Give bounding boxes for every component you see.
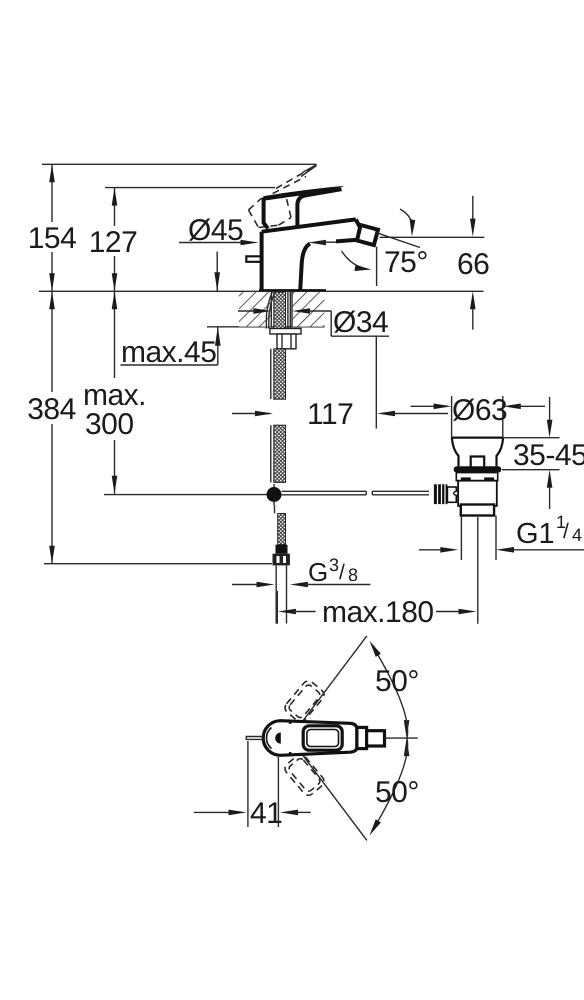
dimension 66 xyxy=(457,196,489,330)
G1 1/4 dimension arrows xyxy=(419,549,443,551)
label G1 1/4 xyxy=(419,512,584,553)
svg-text:154: 154 xyxy=(28,222,77,255)
deck top line xyxy=(39,290,484,292)
dimension 384 xyxy=(27,291,76,563)
waste flange (bell) xyxy=(452,438,503,467)
pop-up waste assembly xyxy=(434,438,503,624)
dimension 154 xyxy=(28,164,77,291)
dimension max.300 xyxy=(83,291,146,493)
svg-text:75°: 75° xyxy=(384,246,428,279)
arc arrows at centerline xyxy=(404,720,410,738)
label G 3/8 xyxy=(232,555,370,587)
dimension 117 xyxy=(232,398,448,431)
upper body band xyxy=(456,473,497,481)
waste main body xyxy=(458,481,497,506)
faucet base seat line xyxy=(259,289,326,291)
svg-text:66: 66 xyxy=(457,248,489,281)
waste nut band xyxy=(461,505,494,516)
lower 50° arc xyxy=(370,819,381,835)
mounting nut xyxy=(277,334,296,349)
label Ø34 with leader xyxy=(238,306,389,429)
svg-text:Ø63: Ø63 xyxy=(452,394,507,427)
svg-text:G1: G1 xyxy=(516,518,555,550)
faucet side view: lever (solid) xyxy=(263,186,345,229)
faucet side view: dashed raised lever xyxy=(249,165,317,228)
svg-text:/: / xyxy=(339,561,345,584)
svg-text:max.45: max.45 xyxy=(121,336,216,369)
braided hose middle xyxy=(274,425,286,482)
reference line top (lever raised height) xyxy=(42,163,317,165)
dashed handle rotated down 50° xyxy=(283,752,327,798)
deck bottom line xyxy=(207,326,325,328)
50° diagonal line upper xyxy=(302,636,367,722)
svg-text:41: 41 xyxy=(250,797,282,830)
braided hose lower xyxy=(278,514,286,545)
svg-text:300: 300 xyxy=(85,408,134,441)
shank + hoses below deck xyxy=(266,292,429,624)
svg-text:max.180: max.180 xyxy=(322,596,434,629)
hatched deck right block xyxy=(292,292,324,327)
hose curving left under deck xyxy=(266,292,272,329)
svg-text:50°: 50° xyxy=(375,665,419,698)
top view: body capsule xyxy=(246,721,384,756)
dimension max.45 xyxy=(121,252,221,370)
aerator (rotated square) xyxy=(357,225,378,245)
pop-up rod ball joint xyxy=(273,484,275,505)
reference line hose end (384 bottom) xyxy=(44,563,272,565)
braided hose in deck hole xyxy=(274,292,286,329)
svg-text:Ø34: Ø34 xyxy=(333,306,388,339)
G3/8 dimension arrows xyxy=(232,584,259,586)
drain centerline xyxy=(477,517,479,624)
pipe below nut xyxy=(275,565,277,623)
dimension 127 xyxy=(89,188,138,292)
plug lifter pin xyxy=(471,457,485,468)
svg-text:117: 117 xyxy=(307,398,353,431)
top view: aerator xyxy=(367,731,385,746)
svg-text:50°: 50° xyxy=(375,776,419,809)
dashed handle rotated up 50° xyxy=(283,679,327,725)
svg-text:8: 8 xyxy=(348,565,358,585)
svg-text:4: 4 xyxy=(572,525,582,545)
rod knurled knob xyxy=(434,484,448,504)
seal band (black) xyxy=(454,466,502,472)
75 degree construction: spout axis line xyxy=(376,233,420,248)
75 degree vertical reference xyxy=(376,247,378,286)
top view: cartridge dot xyxy=(275,733,281,744)
svg-text:384: 384 xyxy=(27,393,76,426)
tail pipe xyxy=(460,516,462,561)
svg-text:/: / xyxy=(563,520,569,543)
arc arrow lower (75) xyxy=(342,251,372,271)
svg-text:35-45: 35-45 xyxy=(513,439,584,472)
mounting washer xyxy=(270,329,301,335)
G3/8 nut xyxy=(273,554,290,566)
centerline right xyxy=(385,737,418,739)
label Ø45 with leader arrows xyxy=(179,214,336,247)
braided hose upper xyxy=(274,349,286,399)
dimension 35-45 xyxy=(502,397,584,509)
reference line pop-up rod xyxy=(104,494,267,496)
arc arrow upper (75) xyxy=(400,209,415,237)
upper 50° arc xyxy=(372,644,408,832)
dimension Ø63 xyxy=(411,394,546,438)
pop-up rod (horizontal, with break) xyxy=(282,490,367,492)
left tab on body xyxy=(246,256,261,262)
dimension max.180 xyxy=(277,591,476,629)
svg-text:127: 127 xyxy=(89,226,138,259)
hose end fitting xyxy=(276,545,288,554)
second hose lines right of shank xyxy=(287,292,289,329)
overflow slots xyxy=(461,477,471,480)
svg-text:G: G xyxy=(308,557,328,587)
top view: rod stub left xyxy=(246,737,263,740)
reference line 127 (lever height) xyxy=(105,187,275,189)
top view: handle xyxy=(303,726,342,750)
dimension 41 xyxy=(194,741,311,830)
svg-text:3: 3 xyxy=(329,555,339,575)
hatched deck left block xyxy=(239,292,271,327)
faucet side view: body and spout xyxy=(246,219,359,290)
top view: spout neck xyxy=(357,727,367,748)
50° diagonal line lower xyxy=(302,754,367,840)
75 degree horizontal reference xyxy=(380,236,485,238)
top view: screw dots xyxy=(289,721,292,724)
